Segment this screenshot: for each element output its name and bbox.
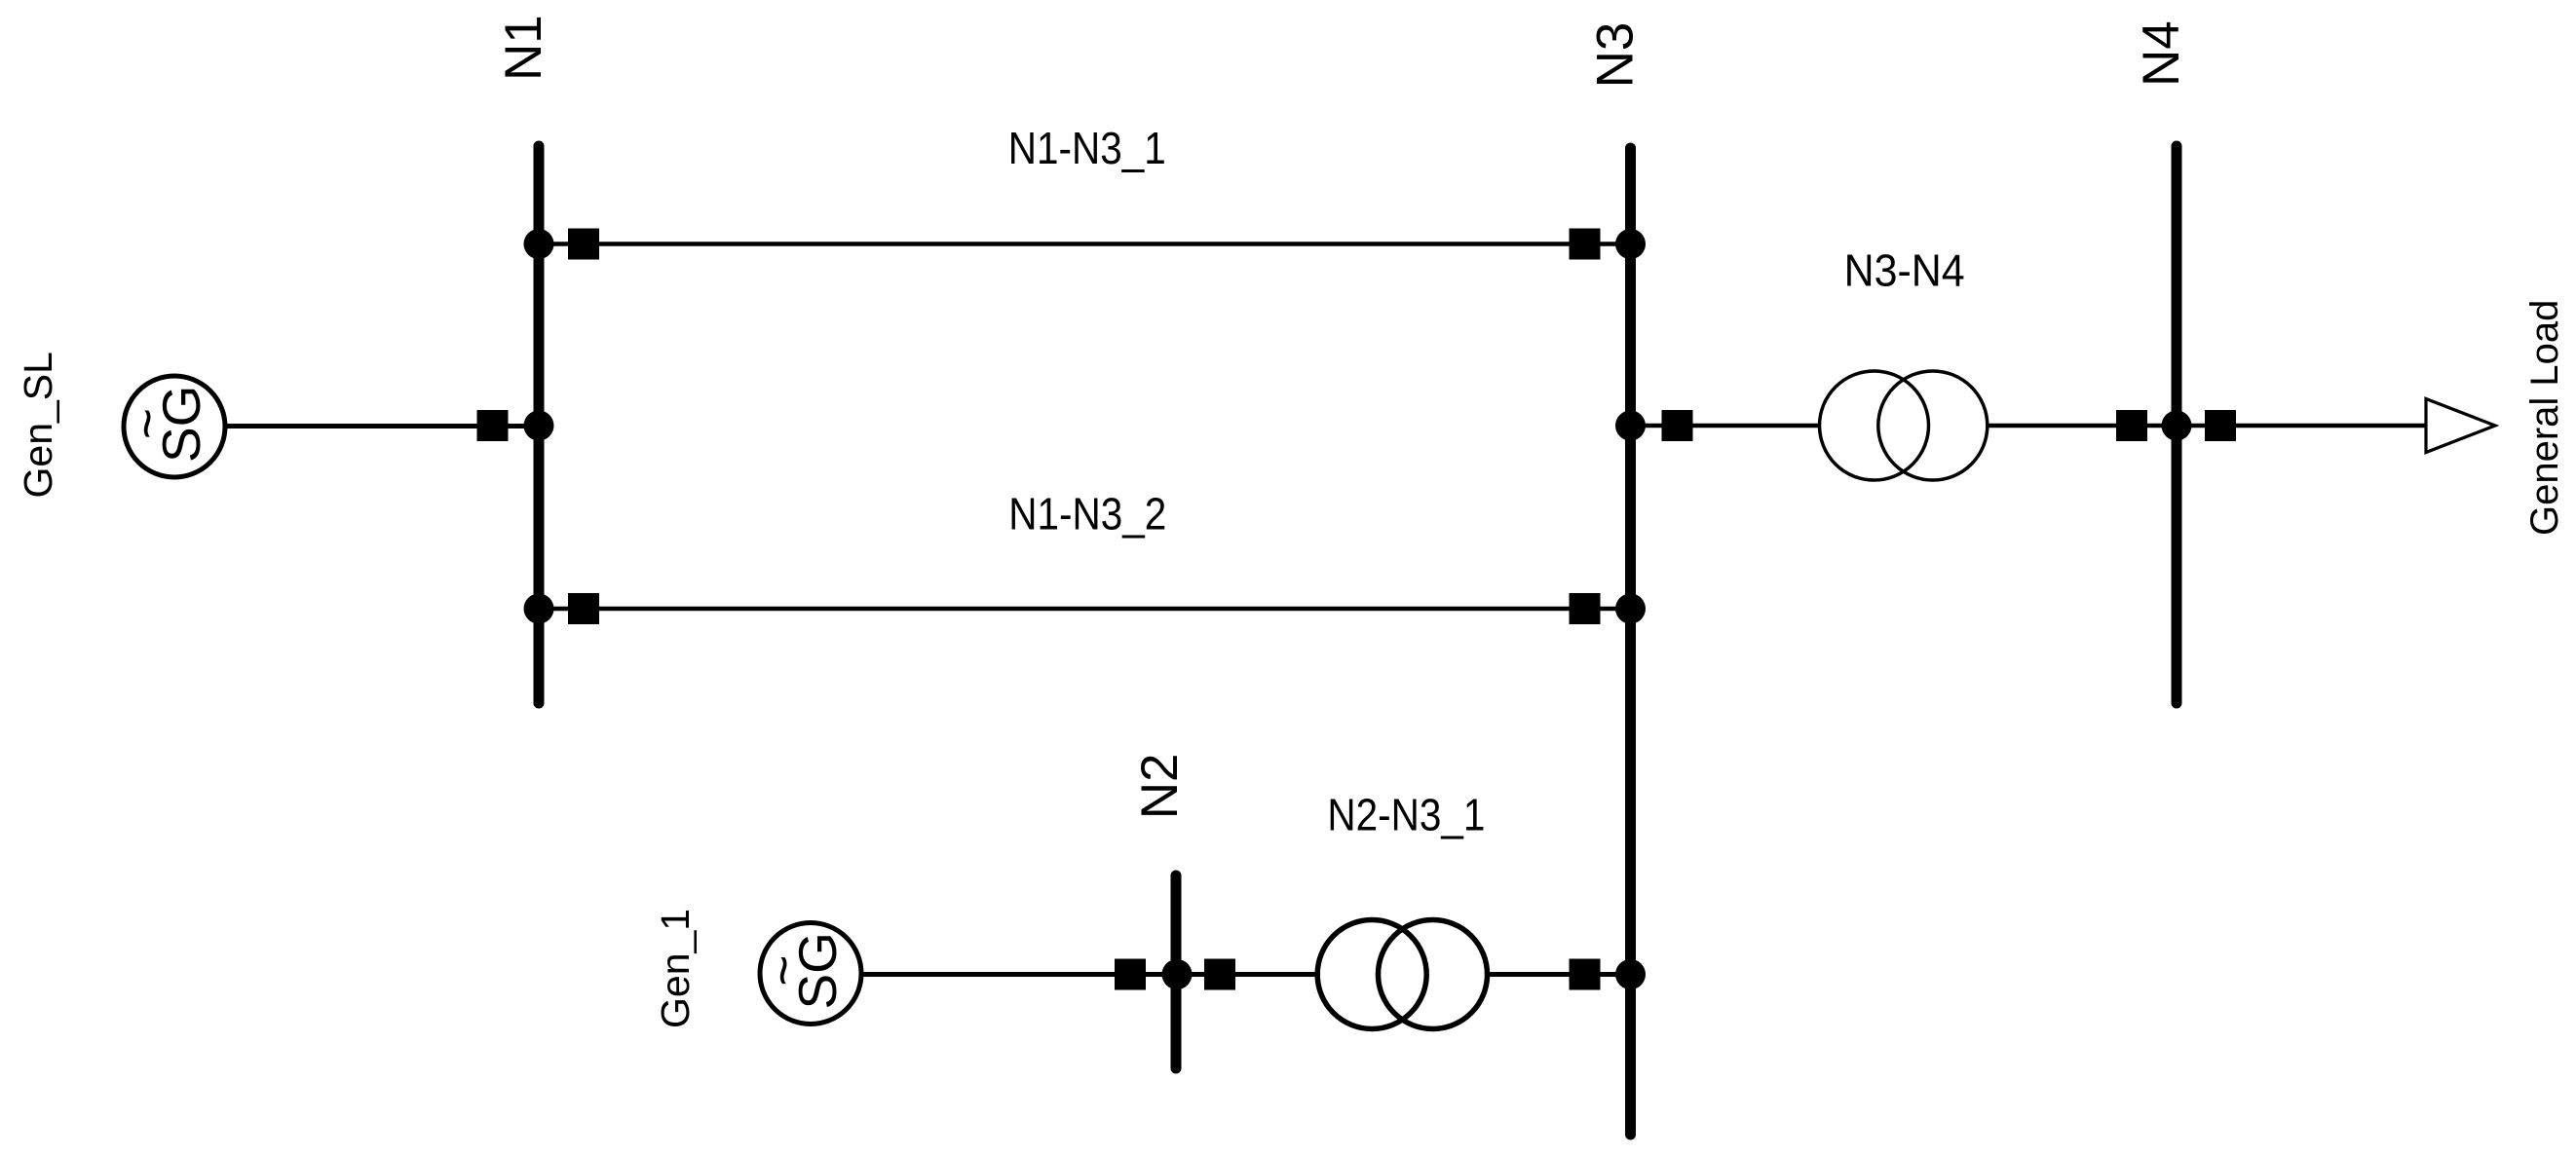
breaker square N1-N3_2 at N3: [1570, 593, 1601, 624]
breaker square N2-N3_1 at N2: [1204, 959, 1235, 990]
breaker square N2-N3_1 at N3: [1570, 959, 1601, 990]
busbar N1: [534, 146, 545, 703]
breaker square Gen_1 at N2: [1115, 959, 1146, 990]
junction dot N3 / N1-N3_1: [1615, 229, 1646, 259]
busbar N3: [1625, 148, 1636, 1135]
wire N4 to General Load: [2177, 424, 2426, 428]
svg-text:General Load: General Load: [2523, 300, 2566, 536]
transformer N3-N4 circle A: [1820, 371, 1929, 480]
svg-text:N1-N3_2: N1-N3_2: [1008, 489, 1166, 540]
generator Gen_SL circle: [124, 376, 225, 477]
junction dot N3 / N2-N3_1: [1615, 959, 1646, 989]
breaker square Gen_SL at N1: [477, 410, 509, 441]
breaker square N3-N4 at N3: [1662, 410, 1693, 441]
svg-text:Gen_1: Gen_1: [653, 909, 698, 1028]
junction dot N1 / N1-N3_1: [524, 229, 554, 259]
breaker square N3-N4 at N4: [2116, 410, 2147, 441]
transformer N3-N4 circle B: [1878, 371, 1988, 480]
junction dot N3 / N1-N3_2: [1615, 594, 1646, 624]
breaker square N1-N3_1 at N1: [568, 229, 599, 260]
junction dot N4 / N3-N4: [2162, 411, 2192, 441]
wire N3 to transformer N3-N4: [1631, 424, 1821, 428]
generator Gen_1 circle: [760, 923, 861, 1025]
wire line N1-N3_2: [539, 607, 1631, 612]
svg-text:N4: N4: [2133, 20, 2190, 87]
svg-text:N3: N3: [1587, 22, 1645, 89]
svg-text:N2: N2: [1131, 754, 1189, 820]
wire transformer N3-N4 to N4: [1987, 424, 2177, 428]
busbar N2: [1171, 876, 1182, 1068]
breaker square N1-N3_1 at N3: [1570, 229, 1601, 260]
wire line N1-N3_1: [539, 242, 1631, 246]
breaker square General Load at N4: [2205, 410, 2236, 441]
svg-text:SG: SG: [787, 932, 848, 1009]
junction dot N2 / Gen_1: [1162, 959, 1193, 989]
junction dot N3 / N3-N4: [1615, 411, 1646, 441]
svg-text:N2-N3_1: N2-N3_1: [1327, 790, 1485, 840]
load General Load arrow: [2426, 399, 2495, 453]
transformer N2-N3_1 circle A: [1317, 920, 1426, 1029]
transformer N2-N3_1 circle B: [1379, 920, 1488, 1029]
svg-text:SG: SG: [151, 386, 211, 463]
svg-text:N1: N1: [495, 15, 552, 81]
wire N2 to transformer N2-N3_1: [1177, 972, 1317, 977]
busbar N4: [2172, 146, 2182, 703]
svg-text:Gen_SL: Gen_SL: [16, 352, 60, 498]
wire Gen_1 to N2: [861, 972, 1177, 977]
svg-text:N1-N3_1: N1-N3_1: [1008, 123, 1166, 173]
svg-text:N3-N4: N3-N4: [1844, 245, 1965, 296]
junction dot N1 / Gen_SL: [524, 411, 554, 441]
wire Gen_SL to N1: [225, 424, 539, 428]
wire transformer N2-N3_1 to N3: [1488, 972, 1631, 977]
breaker square N1-N3_2 at N1: [568, 593, 599, 624]
junction dot N1 / N1-N3_2: [524, 594, 554, 624]
